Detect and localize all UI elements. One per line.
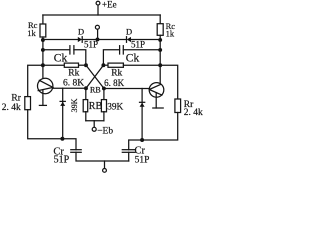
capacitor Ck left: [69, 46, 71, 54]
wire RB left feed: [85, 88, 87, 99]
wire: [103, 112, 105, 121]
wire: [159, 15, 161, 24]
wire Rr left bend: [28, 65, 43, 96]
wire: [98, 39, 127, 41]
wire emitter right: [155, 93, 157, 108]
wire Ck right: [123, 49, 160, 51]
wire emitter left: [42, 90, 44, 106]
node: [158, 48, 162, 52]
wire: [42, 37, 44, 84]
svg-text:6. 8K: 6. 8K: [63, 79, 84, 89]
svg-text:51P: 51P: [84, 40, 98, 50]
resistor Rr right: [175, 99, 181, 113]
node: [101, 63, 105, 67]
node: [60, 137, 64, 141]
capacitor Cr left: [71, 149, 81, 151]
resistor Rr left: [25, 97, 31, 110]
wire: [104, 161, 106, 169]
svg-text:RB: RB: [90, 86, 101, 95]
wire: [97, 5, 99, 15]
resistor Rk right: [108, 63, 123, 67]
wire: [93, 121, 95, 128]
resistor Rk left: [64, 63, 78, 67]
wire steering diode right: [141, 89, 143, 141]
resistor Rc left: [40, 24, 46, 37]
ground bar left: [39, 104, 46, 106]
wire: [86, 120, 104, 122]
svg-text:51P: 51P: [54, 155, 70, 166]
wire: [103, 50, 119, 65]
node: [102, 86, 106, 90]
capacitor Cr right: [122, 149, 135, 151]
wire cross-coupling: [86, 65, 103, 88]
terminal trigger input: [103, 169, 107, 173]
svg-text:+Ee: +Ee: [102, 0, 117, 10]
svg-text:39K: 39K: [70, 98, 79, 112]
wire: [28, 110, 63, 139]
wire: [129, 140, 142, 150]
wire cross-coupling: [86, 65, 104, 88]
wire: [159, 35, 161, 85]
node: [41, 38, 45, 42]
ground bar right: [153, 107, 163, 109]
terminal -Eb: [92, 127, 96, 131]
svg-text:2. 4k: 2. 4k: [184, 108, 203, 118]
svg-text:51P: 51P: [131, 39, 145, 49]
wire diode row left: [43, 39, 78, 41]
svg-text:Ck: Ck: [54, 52, 68, 64]
wire: [142, 113, 178, 141]
svg-text:2. 4k: 2. 4k: [2, 103, 21, 113]
wire: [62, 139, 76, 150]
diode Dr right: [140, 101, 145, 103]
node: [84, 86, 88, 90]
wire: [42, 15, 44, 24]
node: [158, 38, 162, 42]
wire: [97, 29, 99, 40]
capacitor Ck right: [122, 46, 124, 54]
transistor V1: [38, 78, 53, 93]
svg-text:1k: 1k: [27, 28, 36, 38]
node: [41, 63, 45, 67]
svg-text:39K: 39K: [107, 102, 123, 112]
node: [158, 63, 162, 67]
wire: [82, 39, 97, 41]
wire: [128, 152, 130, 161]
wire: [79, 64, 86, 66]
transistor V2: [149, 83, 164, 98]
diode D right: [126, 37, 128, 43]
diode Dr left: [60, 100, 65, 102]
diode D left: [78, 37, 82, 42]
svg-text:−Eb: −Eb: [97, 127, 113, 137]
wire base right: [104, 88, 149, 90]
wire: [74, 50, 86, 65]
wire RB right feed: [103, 88, 105, 99]
wire: [123, 64, 160, 66]
svg-text:6. 8K: 6. 8K: [104, 78, 125, 88]
svg-text:1k: 1k: [166, 29, 175, 39]
svg-text:Ck: Ck: [126, 52, 140, 64]
wire: [85, 112, 87, 121]
node: [84, 63, 88, 67]
resistor Rc right: [157, 24, 163, 36]
wire Rk left: [43, 64, 64, 66]
svg-text:Rk: Rk: [68, 68, 79, 78]
terminal trigger: [95, 25, 99, 29]
svg-text:D: D: [126, 27, 132, 37]
node +Ec rail: [43, 14, 160, 16]
resistor RB left: [83, 100, 88, 112]
svg-text:RB: RB: [89, 101, 103, 112]
wire Ck left: [43, 49, 70, 51]
node: [41, 48, 45, 52]
svg-text:D: D: [78, 27, 84, 37]
wire base left: [53, 87, 86, 89]
wire Rr right bend: [160, 65, 178, 99]
svg-text:51P: 51P: [135, 155, 150, 165]
node trigger: [96, 37, 100, 41]
resistor RB right: [101, 100, 106, 112]
wire steering diode left: [62, 88, 64, 139]
node: [140, 138, 144, 142]
wire Rk right: [103, 64, 108, 66]
wire: [131, 39, 160, 41]
terminal +Ee: [96, 1, 100, 5]
wire: [76, 152, 129, 161]
